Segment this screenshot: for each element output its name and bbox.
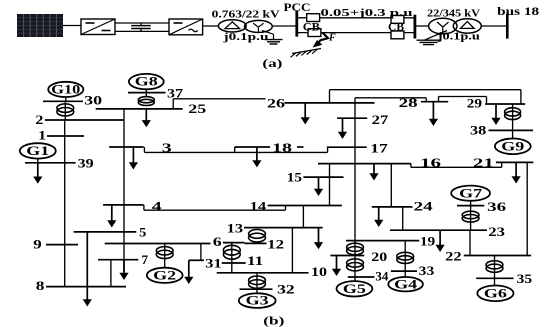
- svg-text:4: 4: [152, 200, 163, 214]
- svg-text:21: 21: [473, 156, 494, 170]
- svg-text:32: 32: [277, 283, 295, 297]
- svg-text:18: 18: [272, 141, 292, 155]
- svg-text:0.763/22 kV: 0.763/22 kV: [212, 8, 280, 20]
- svg-text:19: 19: [420, 234, 435, 248]
- svg-text:G9: G9: [501, 139, 524, 153]
- svg-text:G8: G8: [135, 75, 158, 89]
- svg-text:27: 27: [372, 113, 389, 127]
- svg-text:17: 17: [370, 142, 388, 156]
- svg-text:20: 20: [371, 250, 387, 264]
- svg-text:CB: CB: [303, 22, 320, 34]
- svg-text:34: 34: [375, 270, 389, 284]
- svg-text:PCC: PCC: [284, 2, 311, 14]
- svg-text:36: 36: [487, 200, 506, 214]
- svg-text:33: 33: [419, 264, 435, 278]
- svg-text:29: 29: [467, 96, 482, 110]
- svg-text:G1: G1: [26, 144, 49, 158]
- svg-text:7: 7: [142, 253, 149, 267]
- svg-text:11: 11: [247, 254, 263, 268]
- svg-text:22: 22: [445, 249, 462, 263]
- svg-text:G10: G10: [51, 83, 80, 97]
- svg-text:12: 12: [267, 238, 284, 252]
- svg-text:22/345 kV: 22/345 kV: [427, 8, 480, 20]
- svg-text:5: 5: [139, 226, 146, 240]
- svg-text:38: 38: [470, 124, 486, 138]
- svg-text:1: 1: [38, 129, 46, 143]
- svg-text:CB: CB: [388, 22, 404, 34]
- svg-text:26: 26: [267, 97, 285, 111]
- svg-text:G6: G6: [484, 286, 507, 300]
- svg-text:0.05+j0.3 p.u: 0.05+j0.3 p.u: [321, 7, 413, 19]
- svg-text:23: 23: [488, 225, 505, 239]
- svg-text:G5: G5: [343, 282, 366, 296]
- svg-text:15: 15: [287, 171, 302, 185]
- svg-text:39: 39: [78, 156, 94, 170]
- svg-text:35: 35: [517, 272, 533, 286]
- svg-text:bus 18: bus 18: [497, 6, 539, 18]
- svg-text:10: 10: [311, 265, 327, 279]
- svg-text:(b): (b): [263, 313, 284, 327]
- svg-text:14: 14: [250, 200, 268, 214]
- svg-text:31: 31: [205, 257, 221, 271]
- svg-text:G2: G2: [153, 268, 176, 282]
- svg-text:30: 30: [84, 94, 102, 108]
- svg-text:24: 24: [414, 200, 434, 214]
- svg-text:2: 2: [35, 113, 43, 127]
- svg-text:G4: G4: [394, 277, 418, 291]
- svg-text:j0.1p.u: j0.1p.u: [222, 31, 268, 43]
- svg-text:(a): (a): [262, 56, 282, 70]
- svg-text:G3: G3: [246, 294, 269, 308]
- svg-text:G7: G7: [459, 186, 482, 200]
- svg-text:28: 28: [399, 96, 418, 110]
- svg-text:6: 6: [213, 235, 222, 249]
- svg-text:25: 25: [188, 102, 206, 116]
- svg-text:F: F: [328, 33, 336, 44]
- svg-text:8: 8: [36, 279, 45, 293]
- svg-text:9: 9: [33, 237, 41, 251]
- svg-text:13: 13: [227, 221, 243, 235]
